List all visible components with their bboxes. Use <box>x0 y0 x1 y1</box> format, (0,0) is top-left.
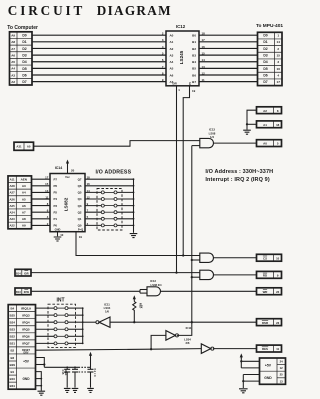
svg-text:Q5: Q5 <box>78 191 82 195</box>
connector MPU CS pin10 <box>257 254 282 261</box>
svg-text:+5V: +5V <box>265 364 272 368</box>
svg-text:A7: A7 <box>22 211 26 215</box>
jumper row Q2 <box>85 211 101 213</box>
wire B6 IC12->MPU <box>199 74 258 76</box>
svg-text:1/4: 1/4 <box>210 135 214 139</box>
svg-text:10: 10 <box>60 233 64 237</box>
svg-text:A5: A5 <box>170 67 174 71</box>
capacitor C15 10uF <box>66 367 68 369</box>
svg-text:A3: A3 <box>22 184 26 188</box>
connector MPU WR pin22 <box>257 288 282 295</box>
svg-text:A2: A2 <box>11 80 15 84</box>
capacitor C bypass 0.1 <box>90 367 92 369</box>
svg-text:CS: CS <box>263 256 267 260</box>
dashed continuation lower <box>79 371 89 373</box>
wire INT line to DSR <box>110 321 257 323</box>
svg-text:RD: RD <box>263 274 267 278</box>
svg-text:A27: A27 <box>10 191 16 195</box>
svg-text:Q2: Q2 <box>78 210 82 214</box>
svg-text:B24: B24 <box>10 321 16 325</box>
wire gateB output to RD box <box>214 274 257 276</box>
power +5V arrow <box>90 354 92 367</box>
wire gateB lower input <box>192 276 200 278</box>
and-gate IC13 2/4 CS <box>200 253 214 262</box>
wire A3 to comparator <box>32 185 51 187</box>
svg-text:17: 17 <box>45 176 49 180</box>
svg-text:15: 15 <box>45 182 49 186</box>
svg-text:A28: A28 <box>10 184 16 188</box>
svg-text:P0: P0 <box>54 224 58 228</box>
svg-text:DSR: DSR <box>262 321 269 325</box>
svg-text:D0: D0 <box>263 34 267 38</box>
junction G/decode <box>182 254 184 256</box>
svg-text:D0: D0 <box>22 34 26 38</box>
jumper block INT dashed box <box>48 304 76 347</box>
svg-text:DRV: DRV <box>23 351 28 354</box>
wire D5 computer->IC12 <box>32 67 166 69</box>
svg-text:A7: A7 <box>11 47 15 51</box>
wire IOR line <box>31 272 200 274</box>
svg-text:A1: A1 <box>170 40 174 44</box>
IC12 LS245 body <box>166 31 199 86</box>
svg-text:Q4: Q4 <box>78 197 82 201</box>
svg-text:2: 2 <box>277 47 279 51</box>
svg-text:15: 15 <box>276 53 280 57</box>
svg-text:B2: B2 <box>192 47 196 51</box>
svg-text:D2: D2 <box>22 47 26 51</box>
svg-text:LS245: LS245 <box>179 50 184 64</box>
wire RESET DRV line <box>36 349 152 350</box>
svg-text:A23: A23 <box>10 217 16 221</box>
jumper row IRQ3 <box>36 314 55 316</box>
junction R11/INT line <box>133 321 135 323</box>
svg-text:A3: A3 <box>11 73 15 77</box>
jumper row IRQ5 <box>36 328 55 330</box>
svg-text:+5V: +5V <box>23 359 30 363</box>
svg-text:A6: A6 <box>22 204 26 208</box>
svg-text:18: 18 <box>276 123 280 127</box>
svg-text:B22: B22 <box>10 335 16 339</box>
svg-text:B31: B31 <box>10 384 16 388</box>
ground IC14 pin10 <box>57 232 59 237</box>
svg-text:A0: A0 <box>27 144 31 148</box>
svg-text:A6: A6 <box>11 53 15 57</box>
svg-text:IC13: IC13 <box>150 279 156 283</box>
svg-text:B7: B7 <box>192 80 196 84</box>
svg-text:D7: D7 <box>263 80 267 84</box>
wire B1 IC12->MPU <box>199 41 258 43</box>
svg-text:D4: D4 <box>263 60 267 64</box>
wire IC12 pin1 DIR vertical <box>176 86 178 273</box>
wire D1 computer->IC12 <box>32 41 166 43</box>
svg-text:I/O Address : 330H~337H: I/O Address : 330H~337H <box>205 169 273 175</box>
svg-text:P5: P5 <box>54 191 58 195</box>
svg-text:13: 13 <box>45 189 49 193</box>
svg-text:Vcc: Vcc <box>65 175 70 179</box>
svg-text:12: 12 <box>280 366 284 370</box>
wire A2/A1 to ground <box>247 110 257 129</box>
jumper row Q5 <box>85 191 101 193</box>
svg-text:A11: A11 <box>10 178 15 182</box>
svg-text:3: 3 <box>277 60 279 64</box>
svg-text:P=Q: P=Q <box>78 227 83 231</box>
wire D7 computer->IC12 <box>32 81 166 83</box>
jumper row IRQ2,9 <box>36 307 55 309</box>
svg-text:G: G <box>189 83 191 86</box>
ground jumper bus <box>130 234 138 238</box>
svg-text:4: 4 <box>277 73 279 77</box>
capacitor C bypass <box>74 367 76 369</box>
svg-text:11: 11 <box>276 347 279 351</box>
svg-text:A2: A2 <box>170 47 174 51</box>
svg-text:D5: D5 <box>22 67 26 71</box>
and-gate IC13 3/4 WR <box>147 287 161 296</box>
ground MPU GND <box>239 389 248 393</box>
wire P=Q pin19 decode output <box>76 232 200 256</box>
wire B3 IC12->MPU <box>199 54 258 56</box>
connector MPU +5V/GND pins 24,12,25,13 <box>260 358 286 384</box>
svg-text:Q7: Q7 <box>78 177 82 181</box>
svg-text:RES: RES <box>262 347 268 351</box>
svg-text:19: 19 <box>79 235 83 239</box>
svg-text:P4: P4 <box>54 197 58 201</box>
wire +5V rail <box>44 366 78 368</box>
svg-text:P6: P6 <box>54 184 58 188</box>
jumper row Q3 <box>85 205 101 207</box>
svg-text:D2: D2 <box>263 47 267 51</box>
wire inverter2 output up to INT line <box>177 322 192 335</box>
svg-text:D3: D3 <box>263 53 267 57</box>
svg-text:17: 17 <box>276 80 280 84</box>
svg-text:Q6: Q6 <box>78 184 82 188</box>
svg-text:GND: GND <box>22 377 30 381</box>
ground A2/A1 <box>243 130 251 134</box>
connector MPU A1 pin18 <box>257 121 282 128</box>
svg-text:2/6: 2/6 <box>186 341 190 345</box>
svg-text:10: 10 <box>276 256 280 260</box>
svg-text:19: 19 <box>192 89 196 93</box>
jumper block I/O ADDRESS dashed box <box>97 189 122 231</box>
svg-text:A4: A4 <box>22 191 26 195</box>
svg-text:B4: B4 <box>192 60 196 64</box>
connector To-MPU-401 data D0-D7 <box>258 32 283 85</box>
wire gate3 output to WR box <box>161 290 257 292</box>
and-gate IC13 1/4 <box>200 138 214 147</box>
junction INT line <box>191 321 193 323</box>
svg-text:IRQ7: IRQ7 <box>22 342 30 346</box>
svg-text:D7: D7 <box>22 80 26 84</box>
svg-text:13: 13 <box>280 379 284 383</box>
svg-text:B1: B1 <box>192 40 196 44</box>
svg-text:IOR: IOR <box>24 271 29 275</box>
svg-text:A26: A26 <box>10 197 16 201</box>
wire A6 to comparator <box>32 205 51 207</box>
svg-text:A25: A25 <box>10 204 16 208</box>
svg-text:IOW: IOW <box>24 290 30 294</box>
connector To-Computer data pins A9-A2 / D0-D7 <box>10 32 33 85</box>
svg-text:IRQ6: IRQ6 <box>22 335 30 339</box>
svg-text:10µF: 10µF <box>64 370 68 376</box>
wire gate1 output to A0 box <box>214 142 257 144</box>
resistor R11 1K <box>133 298 135 302</box>
svg-text:A0: A0 <box>170 34 174 38</box>
wire A5 to comparator <box>32 198 51 200</box>
wire A8 to comparator <box>32 218 51 220</box>
svg-text:A1: A1 <box>263 123 267 127</box>
svg-text:A9: A9 <box>11 34 15 38</box>
jumper row IRQ4 <box>36 321 55 323</box>
svg-text:D4: D4 <box>22 60 26 64</box>
svg-text:23: 23 <box>276 321 280 325</box>
svg-text:IC12: IC12 <box>176 24 186 29</box>
svg-text:A4: A4 <box>170 60 174 64</box>
jumper row Q4 <box>85 198 101 200</box>
svg-text:B5: B5 <box>192 67 196 71</box>
wire D2 computer->IC12 <box>32 47 166 49</box>
svg-text:DIR: DIR <box>173 83 178 86</box>
svg-text:14: 14 <box>276 40 280 44</box>
wire A0 to gate IC13-1/4 <box>34 141 200 147</box>
svg-text:20: 20 <box>71 168 75 172</box>
svg-text:P7: P7 <box>54 177 58 181</box>
svg-text:0.1 × 4: 0.1 × 4 <box>93 369 97 378</box>
svg-text:16: 16 <box>276 67 280 71</box>
IC14 LS682 body <box>50 174 85 232</box>
wire gateA lower input <box>192 259 200 261</box>
svg-text:A24: A24 <box>10 211 16 215</box>
wire B2 IC12->MPU <box>199 47 258 49</box>
wire inverter1 output to INT bus <box>83 321 96 323</box>
svg-text:B0: B0 <box>192 34 196 38</box>
svg-text:A22: A22 <box>10 224 16 228</box>
svg-text:A31: A31 <box>16 144 22 148</box>
connector ISA address pins A11/AEN A28-A22/A3-A9 <box>8 176 32 229</box>
svg-text:A5: A5 <box>11 60 15 64</box>
svg-text:Q0: Q0 <box>78 224 82 228</box>
junction +5V rows <box>43 363 45 365</box>
wire A7 to comparator <box>32 211 51 213</box>
wire B4 IC12->MPU <box>199 61 258 63</box>
svg-text:B3: B3 <box>192 53 196 57</box>
ground ISA GND <box>38 391 46 395</box>
wire +5V pins join <box>36 358 45 368</box>
svg-text:B21: B21 <box>10 342 16 346</box>
wire jumper ground bus <box>133 179 135 233</box>
svg-text:D1: D1 <box>263 40 267 44</box>
svg-text:GND: GND <box>55 227 61 231</box>
svg-text:A9: A9 <box>22 224 26 228</box>
svg-text:A6: A6 <box>170 73 174 77</box>
junction A1 gnd <box>246 123 248 125</box>
svg-text:B25: B25 <box>10 313 16 317</box>
svg-text:B4: B4 <box>10 306 14 310</box>
svg-text:IC11: IC11 <box>186 326 192 330</box>
wire D3 computer->IC12 <box>32 54 166 56</box>
svg-text:B3: B3 <box>10 356 14 360</box>
svg-text:22: 22 <box>276 290 280 294</box>
svg-text:D1: D1 <box>22 40 26 44</box>
svg-text:IRQ4: IRQ4 <box>22 321 30 325</box>
junction reset/inv2 <box>150 348 152 350</box>
svg-text:P3: P3 <box>54 204 58 208</box>
inverter IC11 2/6 <box>166 331 176 341</box>
svg-text:A4: A4 <box>11 67 15 71</box>
svg-text:D5: D5 <box>263 67 267 71</box>
svg-text:B2: B2 <box>10 349 14 353</box>
wire INT bus vertical <box>82 308 84 343</box>
wire inverter3 output to RES box <box>213 348 257 350</box>
inverter IC11 3/6 <box>201 344 211 354</box>
wire Q6 to bus <box>85 185 134 187</box>
svg-text:Q3: Q3 <box>78 204 82 208</box>
connector B14 IOR <box>15 269 31 276</box>
svg-text:24: 24 <box>280 360 284 364</box>
svg-text:I/O ADDRESS: I/O ADDRESS <box>96 169 132 175</box>
and-gate IC13 4/4 RD <box>200 270 214 279</box>
wire vertical net (inverted reset) <box>191 146 193 323</box>
svg-text:11: 11 <box>45 195 48 199</box>
jumper row IRQ6 <box>36 335 55 337</box>
svg-text:A3: A3 <box>170 53 174 57</box>
svg-text:B6: B6 <box>192 73 196 77</box>
wire Q7 to bus <box>85 178 134 180</box>
junction +5V <box>240 360 242 362</box>
power +5V arrow MPU <box>240 356 242 359</box>
wire D4 computer->IC12 <box>32 61 166 63</box>
svg-text:INT: INT <box>56 298 64 304</box>
svg-text:1K: 1K <box>140 305 144 308</box>
wire gateA output to CS box <box>214 257 257 259</box>
svg-text:B23: B23 <box>10 328 16 332</box>
svg-text:IRQ5: IRQ5 <box>22 328 30 332</box>
wire GND to ground <box>243 374 259 376</box>
wire A4 to comparator <box>32 191 51 193</box>
connector ISA B-side IRQ/power <box>8 305 35 390</box>
svg-text:B1: B1 <box>10 370 14 374</box>
junction DIR/IOR <box>175 271 177 273</box>
wire D6 computer->IC12 <box>32 74 166 76</box>
svg-text:IC14: IC14 <box>55 166 63 170</box>
svg-text:B14: B14 <box>16 272 21 275</box>
svg-text:1/6: 1/6 <box>105 310 109 314</box>
connector pin A31 / A0 <box>14 142 34 150</box>
svg-text:A2: A2 <box>263 109 267 113</box>
wire D0 computer->IC12 <box>32 34 166 36</box>
jumper row Q1 <box>85 218 101 220</box>
svg-text:P2: P2 <box>54 210 58 214</box>
svg-text:B13: B13 <box>16 291 21 294</box>
svg-text:A8: A8 <box>11 40 15 44</box>
wire GND rows to ground <box>36 372 42 391</box>
jumper row IRQ7 <box>36 342 55 344</box>
wire gate1 lower input from reset vertical <box>192 145 200 147</box>
svg-text:Q1: Q1 <box>78 217 82 221</box>
svg-text:IRQ2,9: IRQ2,9 <box>21 306 31 310</box>
wire A9 to comparator <box>32 224 51 226</box>
wire IC12 pin19 G-enable <box>183 86 189 256</box>
svg-text:D3: D3 <box>22 53 26 57</box>
connector MPU RD pin9 <box>257 271 282 278</box>
inverter IC11 1/6 <box>99 317 110 327</box>
wire AEN to comparator <box>32 178 51 180</box>
svg-text:A0: A0 <box>263 142 267 146</box>
connector MPU DSR pin23 <box>257 319 282 326</box>
jumper row Q0 <box>85 224 101 226</box>
svg-text:LS682: LS682 <box>64 197 69 211</box>
wire inverter2 input from reset line <box>151 335 166 349</box>
svg-text:D6: D6 <box>263 73 267 77</box>
svg-text:D6: D6 <box>22 73 26 77</box>
svg-text:A5: A5 <box>22 197 26 201</box>
wire B7 IC12->MPU <box>199 81 258 83</box>
wire IOW line <box>31 290 140 292</box>
junction GND <box>242 380 244 382</box>
svg-text:P1: P1 <box>54 217 58 221</box>
connector B13 IOW <box>15 288 31 295</box>
connector MPU A2 pin8 <box>257 107 282 114</box>
svg-text:To MPU-401: To MPU-401 <box>256 23 283 29</box>
svg-text:1: 1 <box>277 34 279 38</box>
svg-text:Interrupt : IRQ 2 (IRQ 9): Interrupt : IRQ 2 (IRQ 9) <box>205 177 269 183</box>
wire +5V to arrow <box>241 360 259 362</box>
svg-text:AEN: AEN <box>21 178 27 182</box>
svg-text:GND: GND <box>264 376 272 380</box>
svg-text:A8: A8 <box>22 217 26 221</box>
svg-text:25: 25 <box>280 373 284 377</box>
svg-text:CIRCUIT: CIRCUIT <box>8 3 85 18</box>
svg-text:To Computer: To Computer <box>7 25 38 31</box>
connector MPU RES pin11 <box>257 345 282 352</box>
svg-text:LS08 3/4: LS08 3/4 <box>151 283 162 287</box>
svg-text:B10: B10 <box>10 377 16 381</box>
power +5V Vcc pin20 <box>67 162 69 174</box>
svg-text:IRQ3: IRQ3 <box>22 313 30 317</box>
svg-text:B29: B29 <box>10 363 16 367</box>
svg-text:DIAGRAM: DIAGRAM <box>97 3 172 18</box>
wire B0 IC12->MPU <box>199 34 258 36</box>
connector MPU A0 pin5 <box>257 140 282 147</box>
wire B5 IC12->MPU <box>199 67 258 69</box>
